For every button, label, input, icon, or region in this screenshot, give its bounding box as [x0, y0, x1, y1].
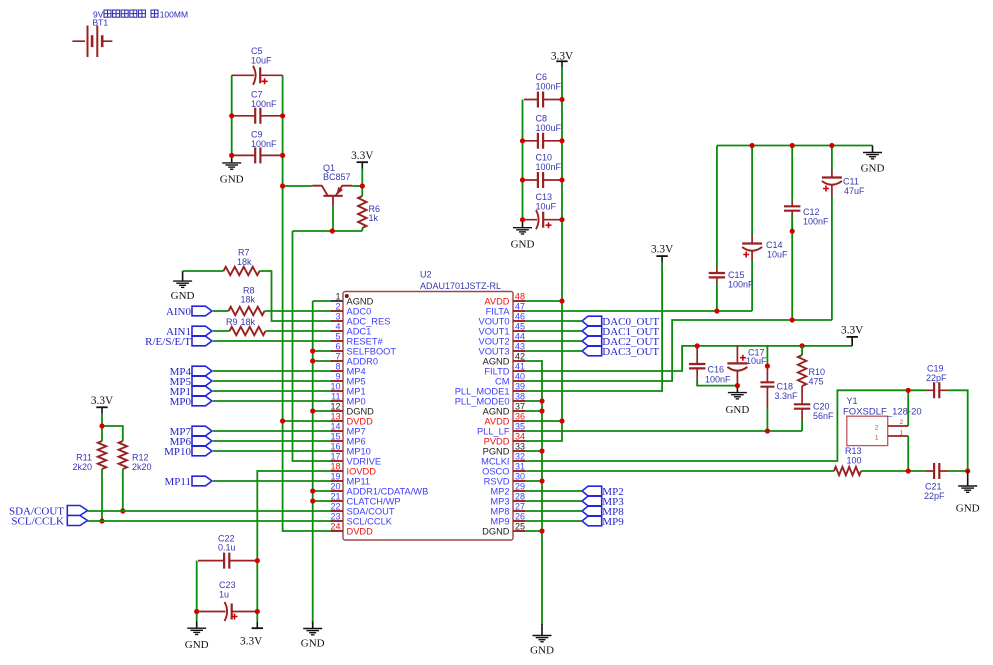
junction C9 left	[229, 153, 234, 158]
junction top rail x831.9	[829, 143, 834, 148]
junction AVDD rail y99.5	[559, 97, 564, 102]
svg-text:28: 28	[515, 492, 525, 502]
svg-text:MP10: MP10	[164, 446, 191, 458]
svg-text:30: 30	[515, 472, 525, 482]
pin 8 MP4	[331, 362, 366, 377]
svg-text:PGND: PGND	[483, 447, 510, 457]
pin 9 MP5	[331, 372, 366, 387]
svg-text:26: 26	[515, 512, 525, 522]
svg-text:100nF: 100nF	[251, 139, 277, 149]
svg-text:23: 23	[330, 512, 340, 522]
wire DAC3_OUT to IC	[523, 350, 582, 352]
pin 46 VOUT0	[479, 312, 526, 327]
svg-text:100nF: 100nF	[536, 162, 562, 172]
wire R7 to pin 3 ADC_RES	[260, 271, 334, 321]
wire Q1 emitter to 3.3V node	[352, 185, 362, 187]
crystal pin 2 stub	[888, 425, 909, 427]
wire pin 1 AGND stub wire	[313, 300, 333, 302]
svg-text:44: 44	[515, 332, 525, 342]
svg-text:1u: 1u	[219, 589, 229, 599]
svg-text:1: 1	[335, 292, 340, 302]
wire pin 6 SELFBOOT	[313, 350, 333, 352]
capacitor C7	[233, 90, 281, 124]
pin 24 DVDD	[330, 522, 373, 537]
net flag MP11	[165, 476, 213, 488]
battery BT1 label 9V battery text	[93, 9, 189, 27]
wire IOVDD pin18 down to C22/C23 and 3.3V	[257, 471, 333, 621]
svg-text:1: 1	[900, 429, 904, 436]
wire RESET to pin 5	[213, 340, 333, 342]
svg-text:18k: 18k	[241, 317, 256, 327]
svg-text:6: 6	[335, 342, 340, 352]
svg-text:MP9: MP9	[490, 517, 509, 527]
power 3.3V right (R10 rail)	[841, 324, 864, 346]
capacitor C16	[689, 346, 731, 386]
pin 17 VDRIVE	[330, 452, 381, 467]
pin 23 SCL/CCLK	[330, 512, 392, 527]
pin 39 PLL_MODE1	[455, 382, 525, 397]
svg-text:100nF: 100nF	[251, 99, 277, 109]
pin 28 MP3	[490, 492, 525, 507]
svg-text:MP1: MP1	[347, 387, 366, 397]
svg-text:MP3: MP3	[490, 497, 509, 507]
svg-text:2k20: 2k20	[132, 462, 152, 472]
pin 34 PVDD	[484, 432, 525, 447]
pin 37 AGND	[483, 402, 525, 417]
svg-text:GND: GND	[171, 290, 195, 302]
svg-text:2: 2	[875, 425, 879, 432]
ground below C16/C17	[725, 386, 749, 416]
svg-text:AGND: AGND	[483, 357, 510, 367]
wire MP7 to IC	[213, 430, 333, 432]
capacitor C18	[760, 346, 798, 431]
svg-text:AGND: AGND	[347, 297, 374, 307]
pin 42 AGND	[483, 352, 525, 367]
svg-text:41: 41	[515, 362, 525, 372]
capacitor C5	[232, 46, 283, 85]
junction C9 right	[280, 153, 285, 158]
svg-text:R10: R10	[809, 367, 826, 377]
svg-text:47uF: 47uF	[844, 186, 865, 196]
svg-text:SELFBOOT: SELFBOOT	[347, 347, 397, 357]
wire MP3 to IC	[523, 500, 582, 502]
svg-text:45: 45	[515, 322, 525, 332]
net flag MP3	[582, 496, 624, 508]
svg-text:0.1u: 0.1u	[218, 542, 236, 552]
svg-text:33: 33	[515, 442, 525, 452]
svg-text:VOUT0: VOUT0	[479, 317, 510, 327]
svg-text:CLATCH/WP: CLATCH/WP	[347, 497, 401, 507]
junction left rail y140.8	[520, 138, 525, 143]
junction C22 right	[255, 558, 260, 563]
svg-text:47: 47	[515, 302, 525, 312]
junction DVDD rail / Q1 collector	[280, 183, 285, 188]
pin 47 FILTA	[486, 302, 525, 317]
pin 27 MP8	[490, 502, 525, 517]
svg-text:MP9: MP9	[602, 516, 624, 528]
junction crystal pin2 node	[906, 388, 911, 393]
net flag MP1	[170, 386, 212, 398]
pin 16 MP10	[330, 442, 370, 457]
svg-text:C13: C13	[536, 192, 553, 202]
svg-text:22pF: 22pF	[924, 491, 945, 501]
capacitor C12	[784, 146, 829, 321]
junction C16/C17 bottom	[735, 383, 740, 388]
pin 7 ADDR0	[331, 352, 378, 367]
svg-text:OSCO: OSCO	[482, 467, 509, 477]
capacitor C6	[524, 72, 562, 108]
svg-text:3: 3	[335, 312, 340, 322]
svg-text:FILTA: FILTA	[486, 307, 511, 317]
svg-text:18: 18	[330, 462, 340, 472]
net flag DAC0_OUT	[582, 316, 659, 328]
junction AGND x312 y361	[310, 358, 315, 363]
wire DVDD branch to pin 13	[283, 420, 333, 422]
svg-text:7: 7	[335, 352, 340, 362]
wire R9 to pin 4 ADC1	[266, 330, 334, 332]
svg-text:ADC1: ADC1	[347, 327, 372, 337]
junction AVDD rail y301	[559, 298, 564, 303]
junction AGND right pin37	[539, 408, 544, 413]
wire crystal pin1 vertical	[907, 436, 909, 471]
pin 1 AGND	[331, 292, 374, 307]
wire pin 21 CLATCH	[313, 500, 333, 502]
ground below IC (AGND)	[301, 622, 325, 650]
svg-text:C14: C14	[766, 240, 783, 250]
pin 12 DGND	[330, 402, 374, 417]
junction C23 left	[194, 609, 199, 614]
ground left of R7	[171, 271, 195, 302]
wire R8 to pin 2 ADC0	[265, 310, 334, 312]
svg-text:2k20: 2k20	[72, 462, 92, 472]
net flag MP5	[170, 376, 212, 388]
pin 32 MCLKI	[481, 452, 525, 467]
svg-text:9: 9	[335, 372, 340, 382]
ground below C13	[511, 221, 535, 251]
pin 13 DVDD	[330, 412, 373, 427]
svg-text:56nF: 56nF	[813, 411, 834, 421]
wire R11 bottom to SCL line	[101, 469, 103, 521]
wire C21 right	[948, 470, 968, 472]
svg-text:AVDD: AVDD	[484, 417, 509, 427]
junction AGND right pin38	[539, 398, 544, 403]
svg-text:10uF: 10uF	[536, 202, 557, 212]
svg-text:39: 39	[515, 382, 525, 392]
svg-text:SDA/COUT: SDA/COUT	[347, 507, 395, 517]
junction AGND x312 y411	[310, 408, 315, 413]
wire R12 bottom to SDA line	[122, 469, 124, 511]
svg-text:C6: C6	[536, 72, 548, 82]
pin 45 VOUT1	[479, 322, 526, 337]
net flag MP4	[170, 366, 212, 378]
wire DAC1_OUT to IC	[523, 330, 582, 332]
pin 26 MP9	[490, 512, 525, 527]
pin 40 CM	[495, 372, 525, 387]
wire MP1 to IC	[213, 390, 333, 392]
svg-text:PLL_MODE1: PLL_MODE1	[455, 387, 510, 397]
pin 4 ADC1	[331, 322, 371, 337]
pin 22 SDA/COUT	[330, 502, 394, 517]
svg-text:100: 100	[847, 456, 862, 466]
capacitor C14	[742, 146, 788, 312]
junction AGND right pin30	[539, 478, 544, 483]
junction top rail x752.1	[750, 143, 755, 148]
pin 2 ADC0	[331, 302, 371, 317]
svg-text:PLL_LF: PLL_LF	[477, 427, 510, 437]
wire DAC0_OUT to IC	[523, 320, 582, 322]
net flag MP8	[582, 506, 624, 518]
resistor R7	[183, 248, 260, 276]
svg-text:16: 16	[330, 442, 340, 452]
junction C23 right	[255, 609, 260, 614]
svg-text:21: 21	[330, 492, 340, 502]
pin 36 AVDD	[484, 412, 525, 427]
pin 30 RSVD	[484, 472, 525, 487]
svg-text:AVDD: AVDD	[484, 297, 509, 307]
wire MP2 to IC	[523, 490, 582, 492]
junction left rail y180	[520, 177, 525, 182]
junction C7 right	[280, 113, 285, 118]
capacitor C9	[233, 130, 281, 164]
net flag MP6	[170, 436, 212, 448]
svg-text:SCL/CCLK: SCL/CCLK	[347, 517, 393, 527]
svg-text:32: 32	[515, 452, 525, 462]
svg-text:40: 40	[515, 372, 525, 382]
svg-text:AGND: AGND	[483, 407, 510, 417]
wire MP6 to IC	[213, 440, 333, 442]
wire pin37 to AGND vertical	[523, 410, 542, 412]
junction AGND right pin33	[539, 448, 544, 453]
svg-text:MP4: MP4	[347, 367, 366, 377]
svg-text:MCLKI: MCLKI	[481, 457, 509, 467]
svg-text:GND: GND	[530, 645, 554, 657]
wire FILTA pin47 to C15/C14 bottoms	[523, 310, 752, 312]
junction 3.3V / R6 top	[360, 183, 365, 188]
net flag SDA/COUT	[9, 506, 88, 518]
svg-text:ADC0: ADC0	[347, 307, 372, 317]
wire MP0 to IC	[213, 400, 333, 402]
junction R12 bottom on SDA	[120, 508, 125, 513]
svg-text:C19: C19	[927, 364, 944, 374]
svg-text:Y1: Y1	[847, 396, 858, 406]
svg-text:ADAU1701JSTZ-RL: ADAU1701JSTZ-RL	[420, 281, 501, 291]
wire Q1 collector to DVDD rail	[283, 185, 313, 187]
svg-text:VOUT2: VOUT2	[479, 337, 510, 347]
wire DAC2_OUT to IC	[523, 340, 582, 342]
svg-text:ADDR1/CDATA/WB: ADDR1/CDATA/WB	[347, 487, 429, 497]
svg-text:2: 2	[900, 419, 904, 426]
svg-text:35: 35	[515, 422, 525, 432]
power 3.3V mid (PLL_MODE1)	[651, 243, 674, 262]
junction AGND right pin25	[539, 528, 544, 533]
svg-text:MP11: MP11	[347, 477, 371, 487]
wire pin33 to AGND vertical	[523, 450, 542, 452]
wire AVDD rail from 3.3V down to pin 34	[523, 68, 562, 441]
wire C16 bottom to C17 bottom / GND	[697, 380, 737, 386]
svg-text:PVDD: PVDD	[484, 437, 510, 447]
svg-text:10uF: 10uF	[767, 250, 788, 260]
capacitor C13	[523, 192, 563, 229]
wire AGND net pin1/6/7/12/20/21 down to ground	[312, 301, 314, 624]
wire MP4 to IC	[213, 370, 333, 372]
svg-text:24: 24	[330, 522, 340, 532]
wire 3.3V stem to Q1 emitter node	[361, 169, 363, 187]
svg-text:37: 37	[515, 402, 525, 412]
svg-text:3.3V: 3.3V	[240, 636, 263, 648]
resistor R10	[798, 346, 825, 387]
svg-text:RESET#: RESET#	[347, 337, 384, 347]
svg-text:C5: C5	[251, 46, 263, 56]
junction AVDD rail y219.7	[559, 217, 564, 222]
net flag DAC2_OUT	[582, 336, 659, 348]
wire PLL_MODE1 pin39 up to 3.3V	[523, 263, 662, 391]
svg-text:10uF: 10uF	[746, 356, 767, 366]
svg-text:34: 34	[515, 432, 525, 442]
net flag MP7	[170, 426, 212, 438]
ground bottom right	[956, 471, 980, 515]
svg-text:5: 5	[335, 332, 340, 342]
capacitor C15	[709, 146, 754, 312]
svg-text:C18: C18	[777, 382, 794, 392]
svg-text:GND: GND	[220, 173, 244, 185]
capacitor C10	[524, 153, 562, 189]
crystal pin 1 stub	[888, 435, 909, 437]
ground below pin25 net	[530, 624, 554, 657]
svg-text:RSVD: RSVD	[484, 477, 510, 487]
svg-text:100uF: 100uF	[536, 123, 562, 133]
net flag MP10	[164, 446, 212, 458]
junction C12 bottom lead	[790, 229, 795, 234]
wire top GND rail	[717, 145, 873, 147]
svg-text:MP0: MP0	[170, 396, 192, 408]
wire C6 stack left rail	[522, 100, 524, 220]
capacitor C21	[924, 463, 948, 501]
junction left rail y219.7	[520, 217, 525, 222]
svg-text:18k: 18k	[241, 295, 256, 305]
capacitor C17	[727, 346, 767, 386]
svg-text:GND: GND	[725, 404, 749, 416]
svg-text:MP5: MP5	[347, 377, 366, 387]
op-amp U2 ADAU1701JSTZ-RL body	[343, 270, 513, 541]
svg-text:13: 13	[330, 412, 340, 422]
net flag RESET	[145, 336, 212, 348]
power 3.3V above Q1	[351, 150, 374, 169]
svg-text:SCL/CCLK: SCL/CCLK	[11, 516, 64, 528]
svg-text:100nF: 100nF	[705, 374, 731, 384]
svg-text:C12: C12	[803, 207, 820, 217]
svg-text:3.3V: 3.3V	[351, 150, 374, 162]
svg-text:DVDD: DVDD	[347, 417, 374, 427]
svg-text:BC857: BC857	[323, 172, 351, 182]
svg-text:31: 31	[515, 462, 525, 472]
svg-text:3.3nF: 3.3nF	[775, 391, 799, 401]
net flag DAC1_OUT	[582, 326, 659, 338]
pin 14 MP7	[330, 422, 365, 437]
svg-text:100nF: 100nF	[536, 82, 562, 92]
pin 18 IOVDD	[330, 462, 376, 477]
junction FILTA at C15	[714, 308, 719, 313]
junction AVDD rail y180	[559, 177, 564, 182]
pin 6 SELFBOOT	[331, 342, 396, 357]
svg-text:475: 475	[809, 377, 824, 387]
svg-text:VDRIVE: VDRIVE	[347, 457, 382, 467]
net flag AIN1	[166, 326, 212, 338]
transistor Q1 BC857	[312, 163, 352, 206]
svg-text:100nF: 100nF	[803, 217, 829, 227]
svg-text:VOUT3: VOUT3	[479, 347, 510, 357]
svg-text:25: 25	[515, 522, 525, 532]
junction CM at C12	[790, 317, 795, 322]
svg-text:GND: GND	[301, 638, 325, 650]
net flag SCL/CCLK	[11, 516, 87, 528]
svg-text:100nF: 100nF	[728, 280, 754, 290]
pin 38 PLL_MODE0	[455, 392, 525, 407]
svg-text:18k: 18k	[237, 257, 252, 267]
junction AGND x312 y351	[310, 348, 315, 353]
svg-text:MP11: MP11	[165, 476, 192, 488]
svg-text:4: 4	[335, 322, 340, 332]
junction AVDD rail y421	[559, 418, 564, 423]
svg-text:43: 43	[515, 342, 525, 352]
svg-text:22pF: 22pF	[926, 373, 947, 383]
battery BT1	[72, 26, 112, 58]
wire pin 7 ADDR0	[313, 360, 333, 362]
net flag MP0	[170, 396, 212, 408]
svg-text:27: 27	[515, 502, 525, 512]
resistor R9	[213, 317, 266, 335]
wire Q1 base net to VDRIVE (pin 17)	[293, 231, 363, 461]
pin 33 PGND	[483, 442, 525, 457]
svg-text:U2: U2	[420, 270, 432, 280]
wire MCLKI pin32 to crystal pin2 / C19	[523, 390, 926, 461]
wire MP8 to IC	[523, 510, 582, 512]
net flag MP9	[582, 516, 624, 528]
svg-text:38: 38	[515, 392, 525, 402]
svg-text:36: 36	[515, 412, 525, 422]
junction C7 left	[229, 113, 234, 118]
junction top rail x792.2	[790, 143, 795, 148]
svg-text:3.3V: 3.3V	[651, 243, 674, 255]
junction R11 bottom on SCL	[99, 518, 104, 523]
junction R13/crystal pin1/C21	[906, 468, 911, 473]
svg-text:C10: C10	[536, 153, 553, 163]
wire SCL to pin 23	[88, 520, 334, 522]
svg-text:14: 14	[330, 422, 340, 432]
svg-text:DGND: DGND	[482, 527, 510, 537]
junction right rail bottom	[965, 468, 970, 473]
svg-text:CM: CM	[495, 377, 509, 387]
net flag AIN0	[166, 306, 212, 318]
svg-text:8: 8	[335, 362, 340, 372]
svg-text:17: 17	[330, 452, 340, 462]
capacitor C23	[198, 580, 256, 621]
junction AGND x312 y501	[310, 498, 315, 503]
ground below C23	[185, 621, 209, 651]
pin 31 OSCO	[482, 462, 525, 477]
wire C22 left down to C23 left	[196, 561, 198, 622]
svg-text:12: 12	[330, 402, 340, 412]
svg-text:R7: R7	[238, 248, 250, 258]
svg-text:MP2: MP2	[490, 487, 509, 497]
svg-text:1: 1	[875, 435, 879, 442]
junction AGND x312 y491	[310, 488, 315, 493]
resistor R11	[72, 441, 106, 472]
wire C5 stack right rail / DVDD net down to pin 24	[283, 75, 333, 531]
svg-text:MP10: MP10	[347, 447, 371, 457]
svg-text:VOUT1: VOUT1	[479, 327, 510, 337]
resistor R8	[213, 286, 265, 316]
svg-text:R9: R9	[226, 317, 238, 327]
